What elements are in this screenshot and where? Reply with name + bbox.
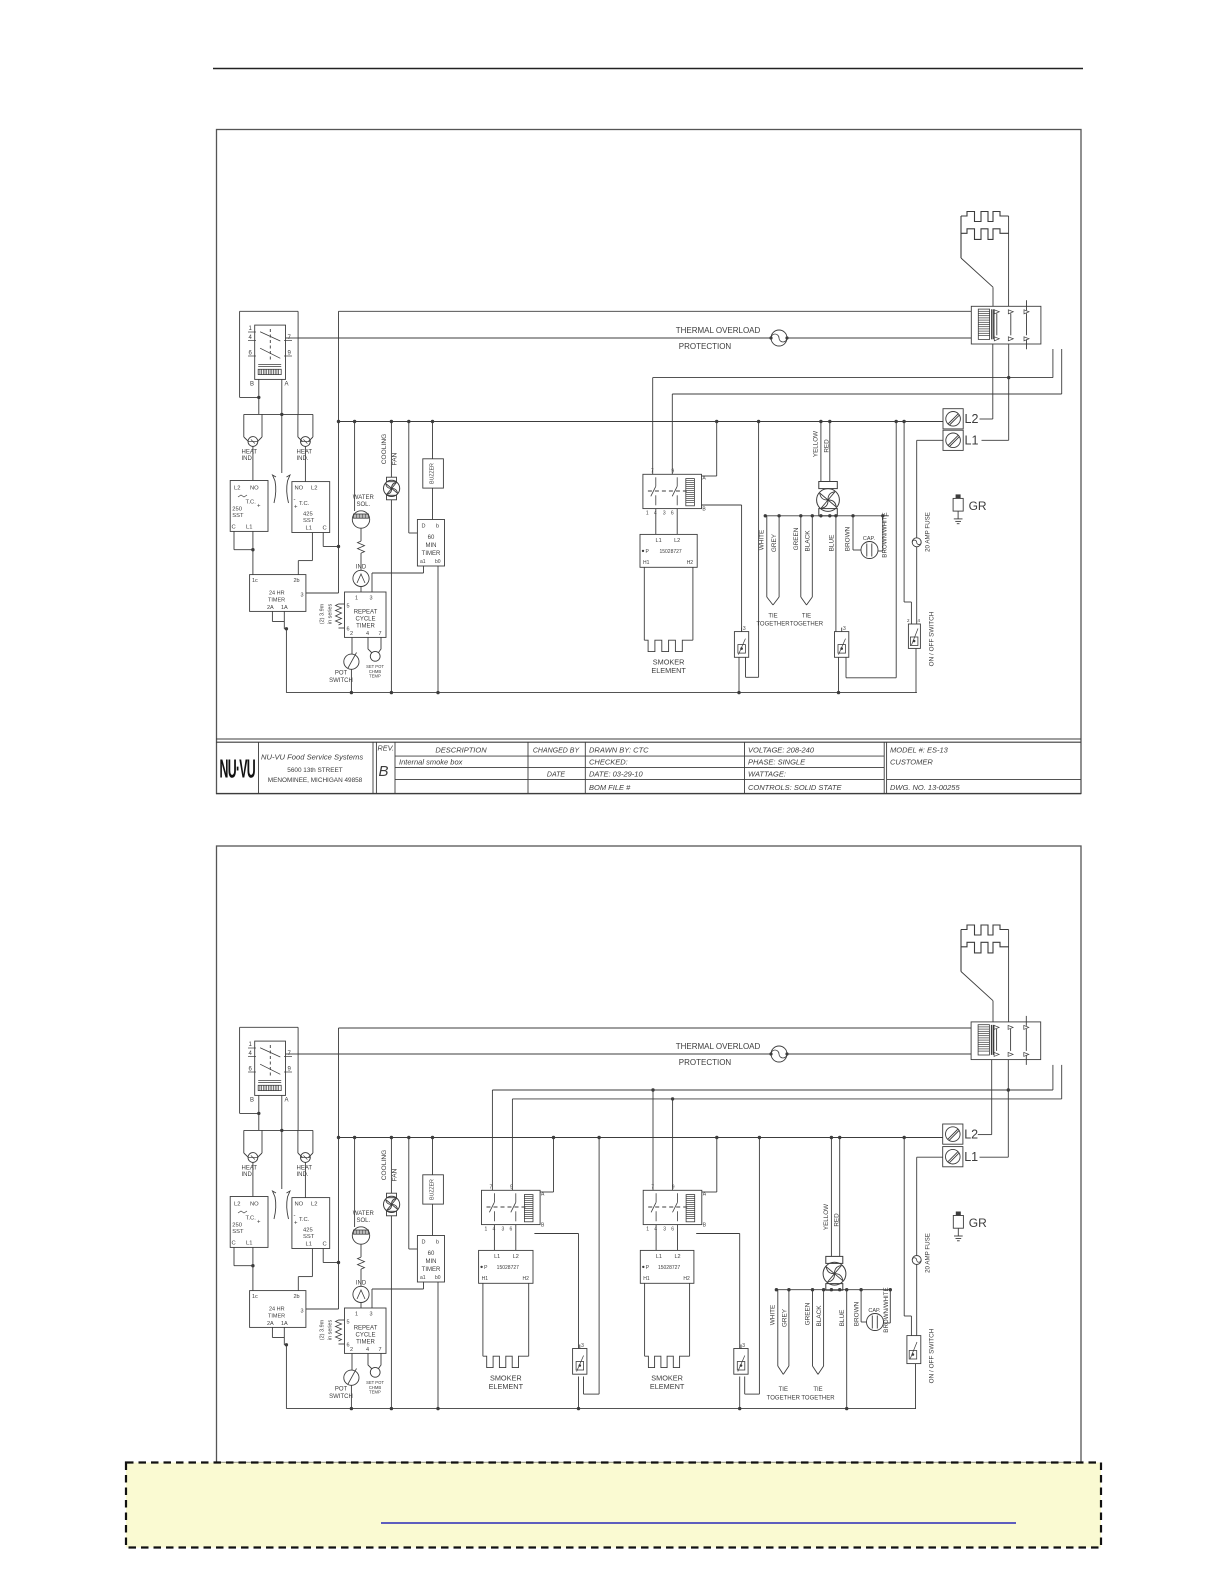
svg-text:T.C.: T.C. [246, 1216, 257, 1222]
svg-text:425: 425 [303, 512, 313, 518]
svg-text:9: 9 [288, 1067, 292, 1073]
svg-text:L2: L2 [234, 486, 240, 492]
svg-text:3: 3 [663, 510, 666, 516]
svg-text:3: 3 [370, 596, 373, 602]
svg-text:60: 60 [428, 535, 435, 541]
svg-text:b0: b0 [435, 1275, 441, 1281]
svg-text:COOLING: COOLING [381, 434, 388, 464]
svg-text:+: + [294, 1221, 298, 1227]
svg-text:H1: H1 [643, 1276, 650, 1282]
svg-text:B: B [702, 506, 706, 512]
svg-text:P: P [646, 549, 650, 555]
svg-text:C: C [323, 1242, 327, 1248]
svg-text:1c: 1c [252, 1294, 258, 1300]
svg-text:H2: H2 [683, 1276, 690, 1282]
svg-text:DATE: DATE [547, 772, 565, 779]
svg-text:1: 1 [646, 510, 649, 516]
svg-text:T.C.: T.C. [299, 1217, 310, 1223]
svg-text:425: 425 [303, 1228, 313, 1234]
svg-text:C: C [232, 525, 236, 531]
svg-text:L1: L1 [965, 434, 979, 448]
svg-text:IND: IND [356, 565, 367, 571]
svg-text:5600 13th STREET: 5600 13th STREET [287, 767, 343, 774]
svg-text:CHANGED BY: CHANGED BY [533, 748, 581, 755]
svg-text:DRAWN BY: CTC: DRAWN BY: CTC [589, 746, 649, 755]
svg-text:IND.: IND. [297, 456, 309, 462]
svg-text:TOGETHER: TOGETHER [756, 622, 790, 628]
svg-text:2: 2 [907, 618, 910, 623]
svg-text:TOGETHER: TOGETHER [801, 1396, 835, 1402]
svg-text:THERMAL OVERLOAD: THERMAL OVERLOAD [676, 326, 761, 335]
svg-text:4: 4 [366, 631, 369, 637]
svg-text:TIE: TIE [813, 1387, 822, 1393]
svg-text:(2) 3.9m: (2) 3.9m [320, 1319, 326, 1340]
svg-text:BROWN/WHITE: BROWN/WHITE [883, 1287, 890, 1332]
svg-text:REPEAT: REPEAT [354, 610, 378, 616]
svg-text:3: 3 [581, 1343, 584, 1349]
svg-text:CYCLE: CYCLE [355, 1333, 375, 1339]
svg-text:B: B [250, 382, 254, 388]
svg-text:2A: 2A [267, 605, 274, 611]
svg-text:250: 250 [232, 1223, 242, 1229]
svg-text:GR: GR [969, 499, 987, 513]
svg-text:ON / OFF SWITCH: ON / OFF SWITCH [929, 611, 936, 666]
svg-text:IND.: IND. [242, 1172, 254, 1178]
svg-text:1: 1 [355, 1312, 358, 1318]
svg-text:FAN: FAN [392, 1168, 399, 1181]
svg-text:b: b [436, 524, 439, 530]
svg-text:TIMER: TIMER [356, 1340, 375, 1346]
svg-text:3: 3 [663, 1226, 666, 1232]
svg-text:VOLTAGE: 208-240: VOLTAGE: 208-240 [748, 746, 815, 755]
svg-text:H1: H1 [643, 560, 650, 566]
svg-text:BROWN: BROWN [854, 1301, 861, 1326]
svg-text:H2: H2 [523, 1276, 530, 1282]
svg-text:a1: a1 [420, 559, 426, 565]
svg-text:FAN: FAN [392, 452, 399, 465]
svg-text:HEAT: HEAT [297, 1166, 313, 1172]
svg-text:-: - [294, 497, 296, 503]
svg-text:BOM FILE #: BOM FILE # [589, 783, 631, 792]
svg-text:WATTAGE:: WATTAGE: [748, 770, 786, 779]
svg-text:GREY: GREY [782, 1308, 789, 1327]
svg-text:a1: a1 [420, 1275, 426, 1281]
svg-text:SWITCH: SWITCH [329, 678, 353, 684]
svg-text:PROTECTION: PROTECTION [679, 1058, 732, 1067]
svg-text:ELEMENT: ELEMENT [489, 1382, 524, 1391]
svg-text:GREEN: GREEN [805, 1302, 812, 1325]
svg-text:CONTROLS: SOLID STATE: CONTROLS: SOLID STATE [748, 783, 842, 792]
svg-text:B: B [703, 1222, 707, 1228]
svg-text:BLACK: BLACK [805, 530, 812, 552]
svg-text:6: 6 [249, 351, 253, 357]
svg-text:T.C.: T.C. [299, 501, 310, 507]
svg-text:BROWN: BROWN [845, 526, 852, 551]
svg-text:SWITCH: SWITCH [329, 1394, 353, 1400]
svg-text:15028727: 15028727 [659, 549, 681, 555]
svg-text:2: 2 [350, 631, 353, 637]
svg-text:3: 3 [370, 1312, 373, 1318]
svg-text:CAP.: CAP. [863, 536, 876, 542]
svg-text:SOL.: SOL. [356, 502, 370, 508]
svg-text:in series: in series [328, 604, 334, 625]
svg-text:IND.: IND. [242, 456, 254, 462]
svg-text:L1: L1 [656, 538, 662, 544]
svg-text:b0: b0 [435, 559, 441, 565]
svg-text:C: C [232, 1241, 236, 1247]
svg-text:2b: 2b [294, 578, 300, 584]
svg-text:PROTECTION: PROTECTION [679, 342, 732, 351]
svg-text:6: 6 [671, 510, 674, 516]
svg-text:ELEMENT: ELEMENT [650, 1382, 685, 1391]
svg-text:L2: L2 [513, 1254, 519, 1260]
svg-text:NO: NO [250, 486, 259, 492]
svg-text:+: + [257, 1220, 261, 1226]
svg-text:L1: L1 [964, 1150, 978, 1164]
svg-text:SST: SST [232, 1229, 244, 1235]
svg-text:NO: NO [295, 486, 304, 492]
svg-text:YELLOW: YELLOW [813, 431, 820, 457]
svg-text:HEAT: HEAT [242, 450, 258, 456]
svg-text:A: A [285, 382, 289, 388]
svg-text:TIE: TIE [768, 614, 777, 620]
svg-text:BLUE: BLUE [829, 535, 836, 552]
svg-text:15028727: 15028727 [497, 1265, 519, 1271]
svg-text:GREY: GREY [771, 533, 778, 552]
svg-text:(2) 3.9m: (2) 3.9m [320, 603, 326, 624]
svg-text:TIMER: TIMER [356, 624, 375, 630]
svg-text:REV.: REV. [378, 744, 395, 753]
svg-text:THERMAL OVERLOAD: THERMAL OVERLOAD [676, 1042, 761, 1051]
svg-text:TOGETHER: TOGETHER [790, 622, 824, 628]
svg-text:WHITE: WHITE [770, 1305, 777, 1326]
svg-text:RED: RED [824, 439, 831, 453]
svg-text:WATER: WATER [353, 495, 375, 501]
svg-text:1A: 1A [281, 1321, 288, 1327]
svg-text:L2: L2 [311, 1202, 317, 1208]
svg-text:L1: L1 [246, 1241, 252, 1247]
svg-text:1c: 1c [252, 578, 258, 584]
svg-text:4: 4 [249, 335, 253, 341]
svg-text:P: P [646, 1265, 650, 1271]
svg-text:20 AMP FUSE: 20 AMP FUSE [925, 512, 932, 552]
svg-text:+: + [294, 505, 298, 511]
svg-text:3: 3 [742, 1343, 745, 1349]
svg-text:GREEN: GREEN [793, 527, 800, 550]
svg-text:COOLING: COOLING [381, 1150, 388, 1180]
svg-text:-: - [294, 1213, 296, 1219]
svg-text:L2: L2 [234, 1202, 240, 1208]
svg-text:b: b [436, 1240, 439, 1246]
svg-text:6: 6 [510, 1226, 513, 1232]
svg-text:6: 6 [249, 1067, 253, 1073]
svg-text:24 HR: 24 HR [269, 1307, 285, 1313]
svg-text:P: P [484, 1265, 488, 1271]
svg-text:H1: H1 [482, 1276, 489, 1282]
svg-text:SST: SST [303, 518, 315, 524]
svg-text:CAP.: CAP. [868, 1308, 881, 1314]
svg-text:TIMER: TIMER [422, 551, 441, 557]
svg-text:SOL.: SOL. [356, 1218, 370, 1224]
svg-text:BLUE: BLUE [839, 1310, 846, 1327]
svg-text:IND.: IND. [297, 1172, 309, 1178]
svg-text:1: 1 [485, 1226, 488, 1232]
svg-text:in series: in series [328, 1320, 334, 1341]
svg-text:MODEL #: ES-13: MODEL #: ES-13 [890, 746, 949, 755]
svg-text:TEMP: TEMP [369, 1390, 381, 1395]
svg-text:MIN: MIN [426, 543, 437, 549]
svg-text:7: 7 [379, 631, 382, 637]
svg-text:3: 3 [843, 626, 846, 632]
svg-text:HEAT: HEAT [297, 450, 313, 456]
svg-text:DWG. NO. 13-00255: DWG. NO. 13-00255 [890, 783, 960, 792]
svg-text:20 AMP FUSE: 20 AMP FUSE [925, 1233, 932, 1273]
svg-text:15028727: 15028727 [658, 1265, 680, 1271]
svg-text:3: 3 [743, 626, 746, 632]
svg-text:ELEMENT: ELEMENT [651, 666, 686, 675]
svg-text:5: 5 [347, 604, 350, 610]
svg-text:CYCLE: CYCLE [355, 617, 375, 623]
svg-text:PHASE: SINGLE: PHASE: SINGLE [748, 758, 806, 767]
svg-text:TEMP: TEMP [369, 674, 381, 679]
svg-text:NU·VU: NU·VU [220, 755, 256, 783]
svg-text:3: 3 [502, 1226, 505, 1232]
svg-text:MENOMINEE, MICHIGAN 49858: MENOMINEE, MICHIGAN 49858 [268, 777, 363, 784]
svg-text:YELLOW: YELLOW [823, 1204, 830, 1230]
svg-text:A: A [285, 1098, 289, 1104]
svg-text:250: 250 [232, 507, 242, 513]
svg-text:CUSTOMER: CUSTOMER [890, 758, 933, 767]
svg-text:L2: L2 [311, 486, 317, 492]
svg-text:TIMER: TIMER [422, 1267, 441, 1273]
svg-text:7: 7 [379, 1347, 382, 1353]
svg-text:SST: SST [303, 1234, 315, 1240]
svg-text:4: 4 [249, 1051, 253, 1057]
svg-text:L1: L1 [656, 1254, 662, 1260]
svg-text:2A: 2A [267, 1321, 274, 1327]
svg-text:+: + [257, 504, 261, 510]
svg-text:C: C [323, 526, 327, 532]
svg-text:NO: NO [295, 1202, 304, 1208]
svg-text:9: 9 [288, 351, 292, 357]
svg-text:2: 2 [350, 1347, 353, 1353]
svg-text:WATER: WATER [353, 1211, 375, 1217]
svg-text:TIE: TIE [779, 1387, 788, 1393]
svg-text:CHECKED:: CHECKED: [589, 758, 628, 767]
svg-text:GR: GR [969, 1216, 987, 1230]
svg-text:L1: L1 [306, 526, 312, 532]
svg-text:L1: L1 [246, 525, 252, 531]
svg-text:3: 3 [301, 593, 304, 599]
svg-text:REPEAT: REPEAT [354, 1326, 378, 1332]
svg-text:L1: L1 [306, 1242, 312, 1248]
svg-text:B: B [250, 1098, 254, 1104]
svg-text:4: 4 [366, 1347, 369, 1353]
svg-text:BUZZER: BUZZER [430, 1179, 436, 1200]
svg-text:IND: IND [356, 1281, 367, 1287]
svg-text:4: 4 [918, 618, 921, 623]
svg-text:DESCRIPTION: DESCRIPTION [435, 746, 487, 755]
svg-text:ON / OFF SWITCH: ON / OFF SWITCH [929, 1328, 936, 1383]
svg-text:TOGETHER: TOGETHER [767, 1396, 801, 1402]
svg-text:HEAT: HEAT [242, 1166, 258, 1172]
svg-text:L2: L2 [965, 412, 979, 426]
svg-text:NO: NO [250, 1202, 259, 1208]
svg-text:L2: L2 [964, 1128, 978, 1142]
svg-text:TIMER: TIMER [268, 598, 285, 604]
svg-text:L1: L1 [494, 1254, 500, 1260]
svg-text:D: D [422, 1240, 426, 1246]
svg-text:3: 3 [301, 1309, 304, 1315]
svg-text:2b: 2b [294, 1294, 300, 1300]
svg-text:D: D [422, 524, 426, 530]
svg-text:WHITE: WHITE [759, 530, 766, 551]
svg-text:1: 1 [249, 326, 253, 332]
svg-text:1A: 1A [281, 605, 288, 611]
svg-text:RED: RED [834, 1213, 841, 1227]
svg-text:BUZZER: BUZZER [430, 463, 436, 484]
svg-text:1: 1 [355, 596, 358, 602]
svg-text:POT: POT [335, 671, 348, 677]
svg-text:6: 6 [671, 1226, 674, 1232]
svg-text:SST: SST [232, 513, 244, 519]
svg-text:T.C.: T.C. [246, 500, 257, 506]
svg-text:B: B [379, 763, 389, 780]
svg-text:60: 60 [428, 1251, 435, 1257]
svg-text:NU-VU Food Service Systems: NU-VU Food Service Systems [261, 753, 363, 762]
svg-text:BLACK: BLACK [816, 1305, 823, 1327]
svg-text:MIN: MIN [426, 1259, 437, 1265]
svg-text:24 HR: 24 HR [269, 591, 285, 597]
svg-text:L2: L2 [674, 538, 680, 544]
svg-text:TIMER: TIMER [268, 1314, 285, 1320]
svg-text:L2: L2 [674, 1254, 680, 1260]
svg-text:1: 1 [249, 1042, 253, 1048]
svg-text:1: 1 [646, 1226, 649, 1232]
svg-text:Internal smoke box: Internal smoke box [399, 758, 463, 767]
svg-text:TIE: TIE [802, 614, 811, 620]
svg-text:5: 5 [347, 1320, 350, 1326]
svg-text:H2: H2 [687, 560, 694, 566]
svg-text:B: B [541, 1222, 545, 1228]
svg-text:POT: POT [335, 1387, 348, 1393]
svg-text:DATE: 03-29-10: DATE: 03-29-10 [589, 770, 643, 779]
